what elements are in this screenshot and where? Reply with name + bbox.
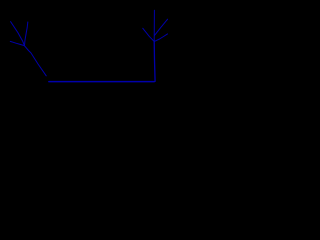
antenna A2 (right, upright whip with prongs) (143, 10, 168, 41)
wire: lead from antenna A1 vertex down-right (25, 46, 47, 76)
antenna A1 (left, rotated whip with three prongs) (10, 22, 28, 46)
wire: horizontal connecting net (49, 81, 154, 83)
wire: lead from antenna A2 vertex down to net (153, 41, 156, 81)
